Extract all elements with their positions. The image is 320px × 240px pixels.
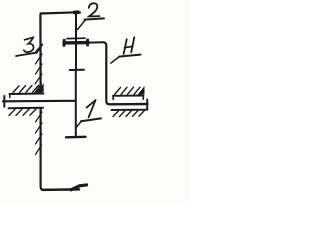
wall hatching upper [35, 45, 43, 93]
planet axle to carrier [89, 41, 104, 43]
wall hatching lower [36, 112, 43, 155]
right bearing bottom bar [112, 109, 147, 111]
right bearing top bar left tick [112, 96, 114, 100]
label 3 underline [16, 53, 35, 56]
left bearing top bar [10, 93, 44, 96]
left bearing hatching above [13, 85, 43, 92]
label 2 underline [85, 18, 105, 19]
planet gear 2 hub thick bar [64, 41, 88, 45]
label 3 glyph [24, 37, 34, 52]
input shaft [3, 100, 75, 103]
ring gear 3 bottom rim [43, 188, 80, 191]
label 2 glyph [89, 3, 100, 16]
ring gear 3 wall lower segment [41, 109, 44, 190]
planet hub right end blob [86, 40, 89, 45]
sun gear 1 body line [75, 70, 77, 137]
label 1 underline [81, 118, 101, 121]
ring gear 3 top rim [41, 12, 81, 13]
label H leader [111, 57, 120, 64]
planet gear 2 body line [75, 13, 77, 70]
input shaft end tick [3, 96, 5, 107]
rim-planet junction blob [75, 10, 79, 14]
carrier H vertical arm [103, 42, 110, 104]
right bearing top bar [113, 95, 144, 97]
right bearing top bar right tick [142, 96, 144, 100]
left bearing bottom bar [9, 107, 44, 109]
ring gear 3 bottom rim end hook [71, 185, 87, 190]
carrier output shaft [110, 103, 148, 106]
ring gear 3 wall upper segment [39, 14, 42, 94]
label H underline [119, 55, 140, 57]
right bearing hatching below [113, 110, 145, 116]
label 2 leader [78, 20, 86, 30]
label H glyph [124, 37, 135, 54]
label 1 glyph [87, 100, 96, 117]
left bearing top bar left tick [9, 94, 11, 98]
output shaft end tick [146, 100, 148, 110]
left bearing hatching below [9, 109, 36, 116]
planet gear 2 hub upper bar [67, 37, 85, 39]
label 3 leader [35, 44, 42, 53]
sun gear 1 bottom end cap [66, 136, 86, 139]
label 1 leader [77, 122, 82, 127]
planet gear 2 lower end cap [70, 69, 84, 71]
right bearing hatching above [115, 87, 144, 94]
planet hub left end blob [63, 40, 66, 45]
